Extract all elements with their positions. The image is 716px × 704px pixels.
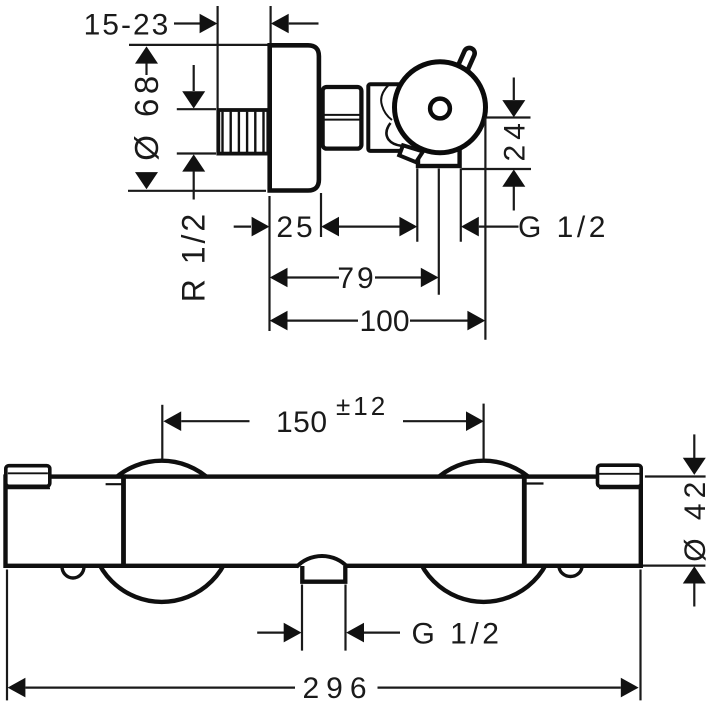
- svg-text:100: 100: [359, 305, 409, 338]
- left tab bottom line: [6, 487, 50, 489]
- threaded nipple hatch: [223, 112, 264, 153]
- union nut: [323, 87, 362, 149]
- G 1/2 top leader arrow: [461, 217, 519, 237]
- svg-text:G 1/2: G 1/2: [518, 211, 609, 244]
- right knob circle: [413, 461, 554, 602]
- dimension O42 lower arrow: [683, 566, 706, 606]
- dimension 79: [270, 268, 439, 288]
- right tab inner line: [599, 473, 640, 475]
- extension line 296 right: [639, 570, 641, 701]
- right step line: [524, 482, 543, 484]
- dimension 100: [270, 311, 486, 331]
- dimension 150+-12 right arrow: [403, 411, 484, 431]
- O42 extension line lower: [643, 564, 705, 566]
- left tab inner line: [8, 472, 48, 474]
- outlet block below circle: [418, 146, 460, 166]
- right divider: [522, 474, 527, 566]
- svg-text:±12: ±12: [336, 391, 388, 421]
- bottom outlet dome: [297, 556, 348, 569]
- extension line right knob center: [483, 404, 485, 459]
- svg-text:R 1/2: R 1/2: [176, 211, 212, 302]
- bar body: [6, 477, 641, 566]
- scallop arc upper: [381, 85, 392, 121]
- O42 extension line upper: [645, 475, 706, 477]
- right tab bottom line: [599, 487, 641, 489]
- dimension 24 lower arrow: [502, 170, 525, 211]
- dimension 25 right arrow pair: [321, 217, 417, 237]
- extension line pipe bottom (left): [177, 152, 216, 154]
- svg-text:Ø 68: Ø 68: [128, 71, 165, 161]
- dimension O68 upper arrow: [135, 46, 158, 75]
- dimension 296 left arrow: [8, 678, 295, 698]
- left knob circle: [91, 461, 232, 602]
- svg-text:25: 25: [276, 211, 315, 244]
- chamfer stub (45 deg): [399, 145, 423, 162]
- extension line outlet center: [438, 169, 440, 295]
- dimension 15-23 left arrow: [174, 14, 217, 34]
- dimension 296 right arrow: [378, 678, 639, 698]
- bottom outlet tab: [302, 566, 345, 582]
- svg-text:150: 150: [276, 406, 328, 439]
- dimension R1/2 upper arrow: [182, 65, 205, 109]
- dimension 24 upper arrow: [502, 78, 525, 118]
- scallop arc lower: [386, 123, 401, 146]
- svg-text:Ø 42: Ø 42: [679, 477, 712, 562]
- extension line horizontal (24 lower): [462, 168, 532, 170]
- svg-text:15-23: 15-23: [84, 9, 171, 42]
- extension line V1 (wall face / pipe end): [217, 6, 219, 109]
- svg-text:24: 24: [498, 118, 531, 161]
- extension line outlet right: [460, 169, 462, 242]
- dimension R1/2 lower arrow: [182, 154, 205, 199]
- handle circle: [395, 62, 486, 153]
- left end tab: [6, 466, 50, 487]
- left step line: [106, 483, 124, 485]
- threaded nipple outline: [218, 110, 268, 154]
- left check-valve bump: [62, 555, 84, 578]
- extension line left knob center: [161, 405, 163, 459]
- G 1/2 bottom left arrow: [257, 623, 301, 643]
- valve body rectangle: [368, 84, 432, 151]
- extension line circle right edge: [484, 118, 486, 340]
- lever stub: [454, 46, 477, 80]
- dimension O68 lower arrow: [135, 172, 158, 189]
- right check-valve bump: [559, 556, 582, 577]
- svg-text:296: 296: [302, 672, 373, 704]
- union nut hex lines: [321, 114, 363, 116]
- extension line outlet tab right: [344, 585, 346, 651]
- extension line V2 (escutcheon front face, upper): [270, 6, 272, 45]
- extension line pipe top (left): [177, 108, 216, 110]
- extension line 296 left: [6, 570, 8, 701]
- dimension 15-23 right arrow: [271, 14, 319, 34]
- dimension O42 upper arrow: [683, 434, 706, 475]
- extension line body left lower: [268, 196, 270, 331]
- center hub circle: [430, 99, 450, 119]
- dimension 150+-12 left arrow: [163, 411, 249, 431]
- extension line outlet tab left: [301, 585, 303, 651]
- extension line horizontal (24 upper): [485, 116, 530, 118]
- dimension 25 left arrow: [234, 217, 270, 237]
- G 1/2 bottom right arrow: [346, 623, 400, 643]
- extension line body right lower: [320, 193, 322, 237]
- extension line bottom of body (O68 lower): [128, 190, 266, 192]
- svg-text:79: 79: [337, 262, 376, 295]
- left divider: [121, 474, 126, 566]
- escutcheon body: [270, 45, 319, 190]
- right end tab: [598, 465, 642, 486]
- extension line top of body (O68 upper): [129, 44, 270, 46]
- extension line below outlet left: [416, 169, 418, 242]
- svg-text:G 1/2: G 1/2: [412, 618, 503, 651]
